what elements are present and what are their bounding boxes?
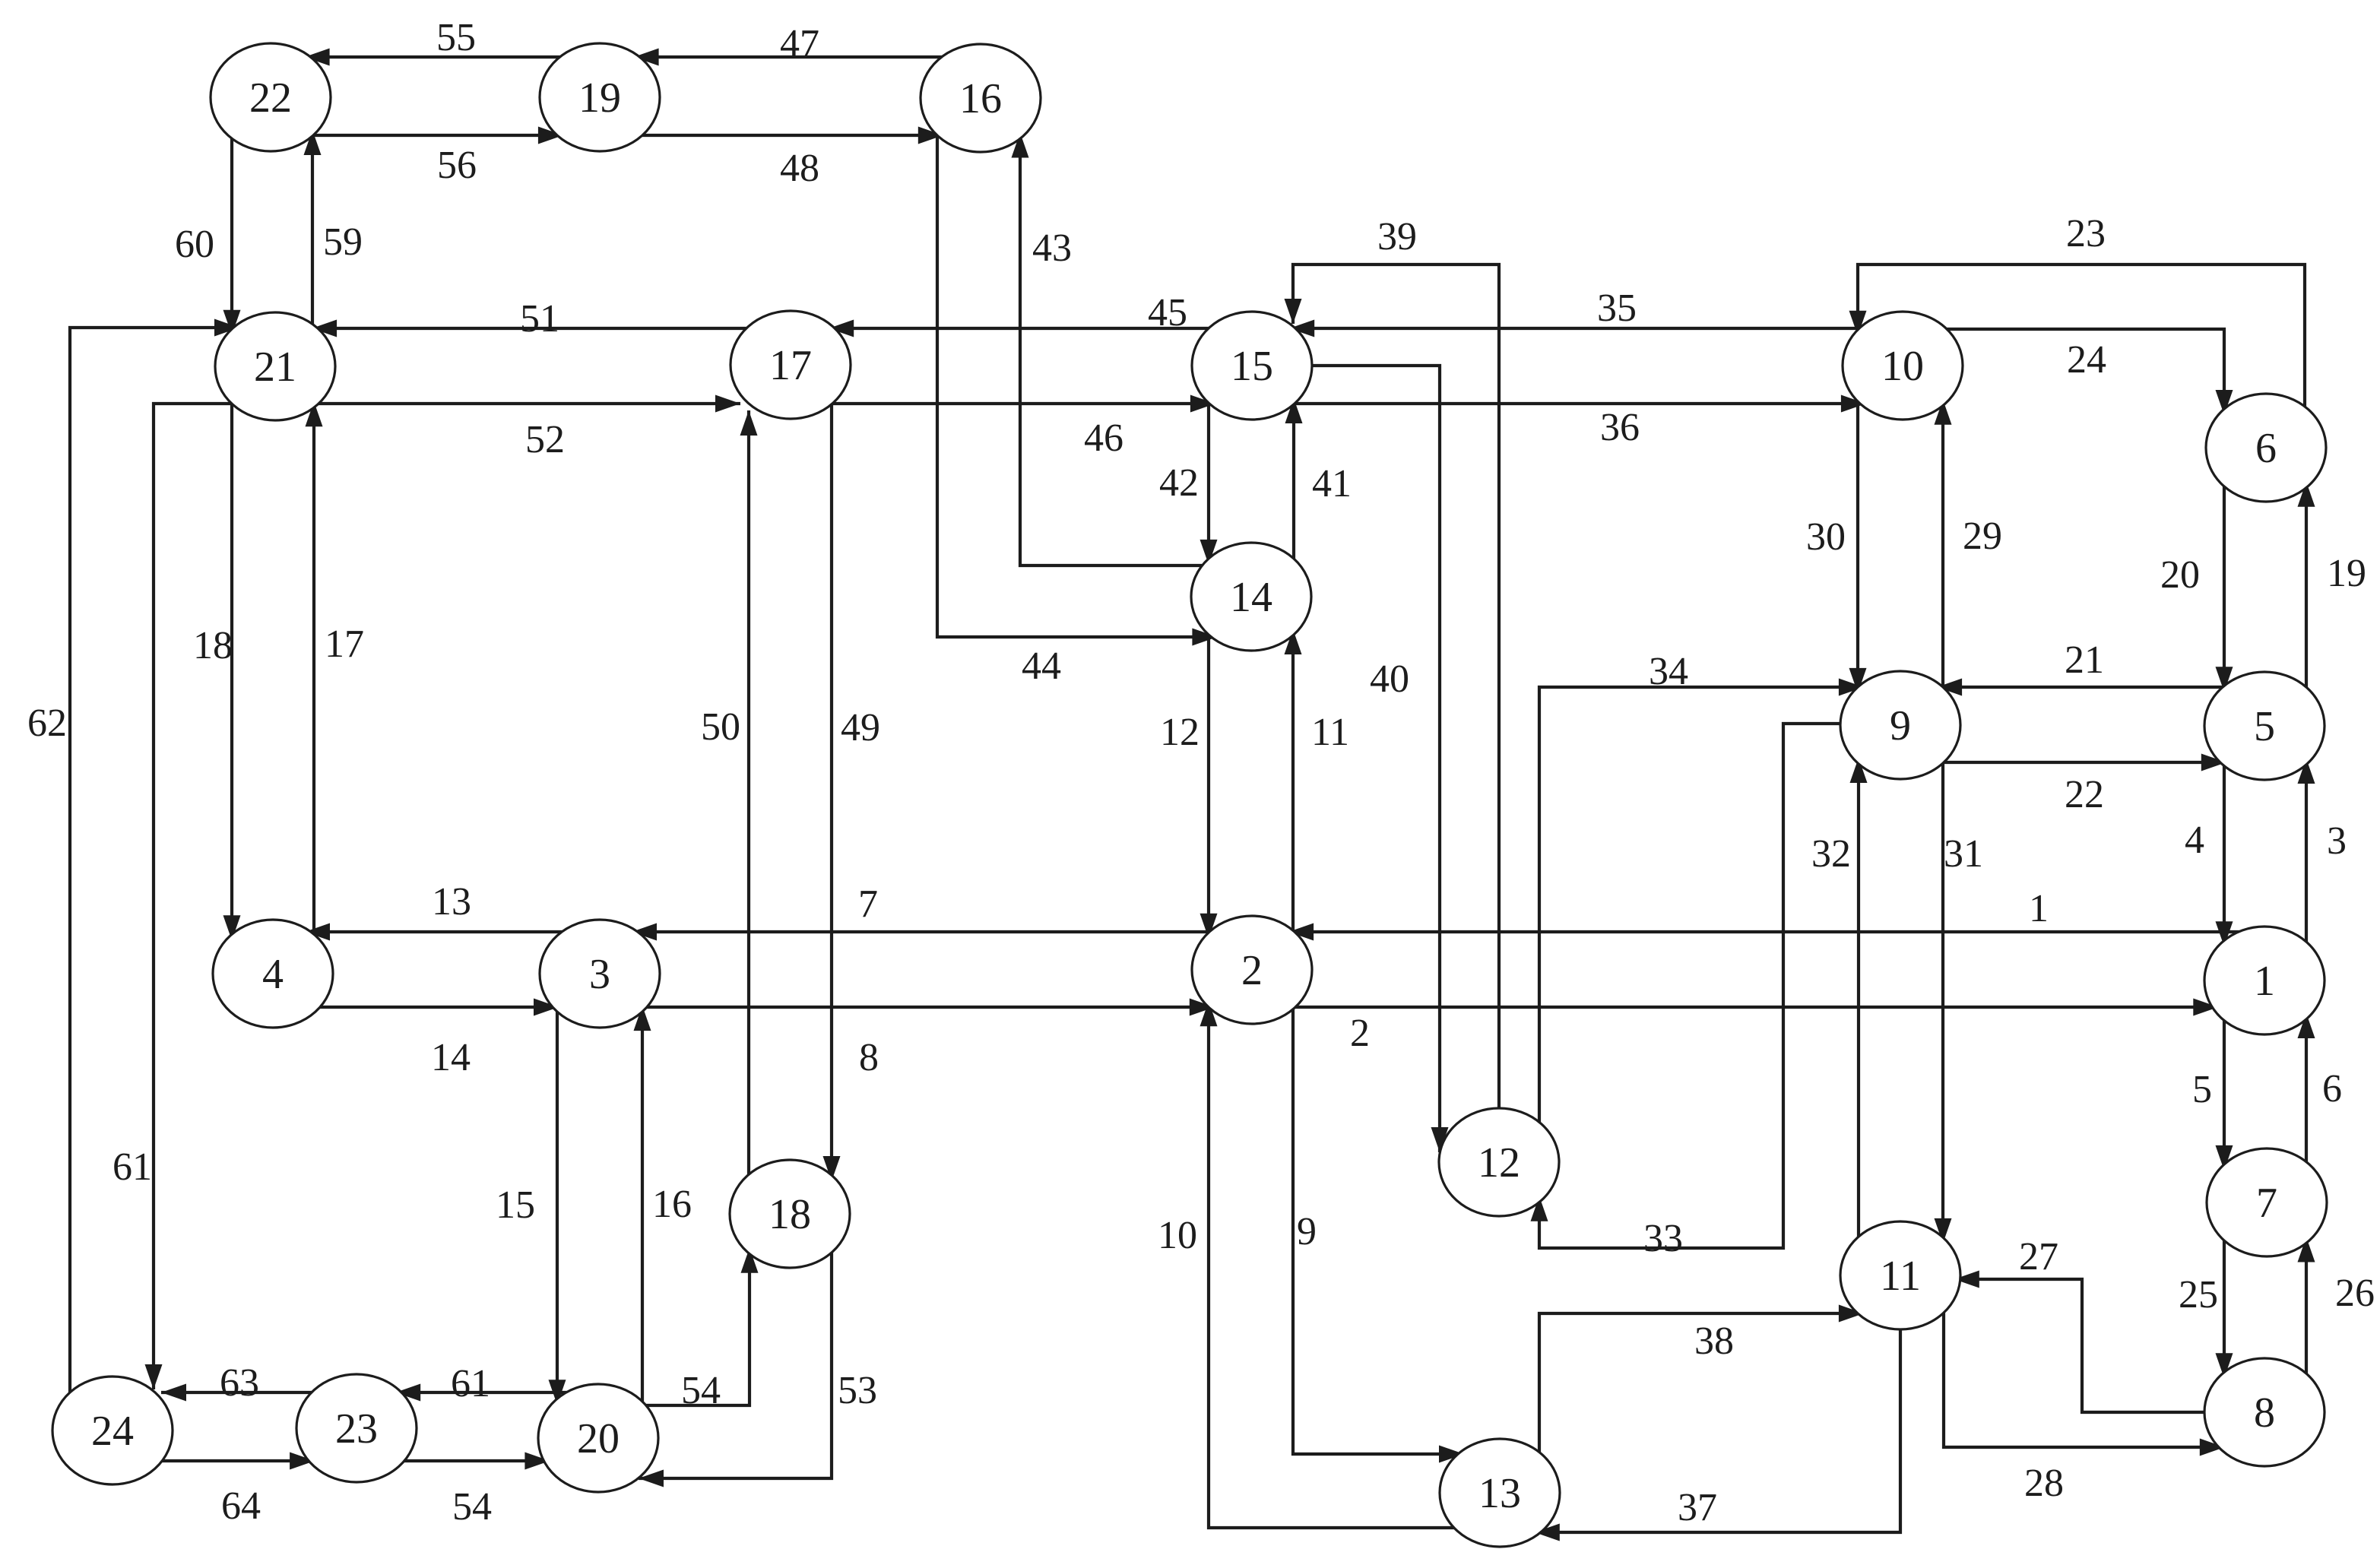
- svg-text:2: 2: [1350, 1012, 1370, 1055]
- svg-text:50: 50: [701, 705, 740, 749]
- edge 10: 13->2: [1200, 1001, 1460, 1528]
- svg-text:46: 46: [1084, 417, 1123, 460]
- edge 13: 3->4: [305, 923, 568, 941]
- edge 11: 2->14: [1285, 629, 1302, 936]
- svg-text:24: 24: [2067, 338, 2106, 382]
- edge 25: 7->8: [2216, 1234, 2233, 1378]
- svg-text:5: 5: [2192, 1068, 2212, 1111]
- edge 23: 6->10: [1849, 265, 2306, 413]
- svg-text:4: 4: [2185, 819, 2204, 862]
- svg-text:56: 56: [437, 144, 477, 187]
- svg-text:34: 34: [1649, 650, 1688, 693]
- svg-text:3: 3: [2327, 819, 2347, 863]
- edge 39: 12->15: [1285, 265, 1500, 1114]
- svg-text:64: 64: [221, 1484, 261, 1528]
- svg-text:17: 17: [325, 623, 364, 666]
- edge 28: 11->8: [1944, 1307, 2225, 1456]
- edge 35: 10->15: [1289, 320, 1865, 337]
- edge 46: 17->15: [826, 395, 1215, 413]
- svg-text:7: 7: [2256, 1180, 2277, 1227]
- svg-text:41: 41: [1312, 462, 1352, 505]
- svg-text:10: 10: [1158, 1214, 1197, 1257]
- edge 15: 3->20: [549, 1006, 566, 1405]
- svg-text:30: 30: [1806, 515, 1846, 559]
- edge 5: 1->7: [2216, 1015, 2233, 1171]
- node 17: [730, 311, 851, 419]
- svg-text:42: 42: [1159, 461, 1199, 505]
- svg-text:44: 44: [1022, 645, 1061, 688]
- svg-text:14: 14: [1230, 574, 1272, 621]
- edge 1: 1->2: [1288, 923, 2245, 941]
- edge 19: 5->6: [2298, 482, 2315, 693]
- svg-text:11: 11: [1311, 711, 1349, 754]
- node 2: [1192, 916, 1312, 1024]
- svg-text:54: 54: [681, 1369, 721, 1412]
- edge 12: 14->2: [1200, 629, 1218, 939]
- node 8: [2204, 1358, 2325, 1466]
- svg-text:36: 36: [1600, 406, 1640, 449]
- svg-text:23: 23: [2066, 212, 2106, 255]
- edge 55: 19->22: [305, 49, 566, 66]
- node 22: [211, 43, 331, 151]
- svg-text:29: 29: [1963, 515, 2002, 558]
- node 16: [921, 44, 1041, 152]
- edge 40: 15->12: [1306, 366, 1449, 1152]
- svg-text:55: 55: [436, 16, 476, 59]
- edge 48: 19->16: [636, 127, 943, 144]
- svg-text:2: 2: [1241, 947, 1263, 994]
- edge 38: 13->11: [1539, 1305, 1864, 1459]
- svg-text:15: 15: [1231, 343, 1273, 390]
- svg-text:17: 17: [769, 342, 812, 389]
- svg-text:39: 39: [1377, 215, 1417, 258]
- edge 21: 5->9: [1937, 679, 2229, 696]
- svg-text:1: 1: [2254, 958, 2275, 1005]
- edge 3: 1->5: [2298, 759, 2315, 948]
- svg-text:8: 8: [859, 1036, 879, 1079]
- svg-text:20: 20: [577, 1415, 620, 1462]
- edge 4: 5->1: [2216, 760, 2233, 947]
- edge 43: 14->16: [1012, 133, 1209, 566]
- node 21: [215, 312, 335, 420]
- svg-text:9: 9: [1890, 702, 1911, 749]
- edge 60: 22->21: [223, 132, 241, 335]
- edge 26: 8->7: [2298, 1237, 2315, 1380]
- edge 22: 9->5: [1938, 754, 2226, 771]
- svg-text:9: 9: [1297, 1210, 1317, 1253]
- svg-text:37: 37: [1678, 1486, 1717, 1529]
- node 23: [296, 1374, 417, 1482]
- svg-text:32: 32: [1811, 832, 1851, 876]
- edge 52: 21->17: [312, 395, 740, 413]
- svg-text:20: 20: [2160, 553, 2200, 597]
- edge 41: 14->15: [1285, 398, 1303, 565]
- svg-text:6: 6: [2255, 425, 2277, 472]
- edge 27: 8->11: [1954, 1271, 2210, 1413]
- edge 7: 2->3: [632, 923, 1215, 941]
- edge 53: 18->20: [639, 1247, 832, 1487]
- svg-text:33: 33: [1643, 1217, 1683, 1260]
- node 24: [52, 1377, 173, 1484]
- edge 50: 18->17: [740, 410, 758, 1180]
- svg-text:23: 23: [335, 1405, 378, 1453]
- node 9: [1840, 671, 1960, 779]
- svg-text:19: 19: [2327, 552, 2366, 595]
- svg-text:7: 7: [858, 882, 878, 926]
- svg-text:10: 10: [1881, 343, 1924, 390]
- node 20: [538, 1384, 658, 1492]
- edge 31: 9->11: [1935, 757, 1952, 1243]
- svg-text:13: 13: [432, 880, 471, 923]
- svg-text:22: 22: [2065, 773, 2104, 816]
- svg-text:12: 12: [1478, 1139, 1520, 1186]
- node 6: [2206, 394, 2326, 502]
- node 19: [540, 43, 660, 151]
- svg-text:43: 43: [1032, 227, 1072, 270]
- edge 54: 23->20: [398, 1453, 550, 1470]
- svg-text:3: 3: [589, 951, 610, 998]
- svg-text:53: 53: [838, 1369, 877, 1412]
- svg-text:24: 24: [91, 1408, 134, 1455]
- edge 37: 11->13: [1535, 1323, 1900, 1541]
- svg-text:4: 4: [262, 951, 284, 998]
- node 15: [1192, 312, 1312, 420]
- edge 18: 21->4: [223, 398, 241, 940]
- edge 62: 24->21: [70, 319, 239, 1399]
- svg-text:54: 54: [452, 1485, 492, 1529]
- edge 64: 24->23: [156, 1453, 315, 1470]
- edge 32: 11->9: [1850, 758, 1868, 1243]
- svg-text:51: 51: [520, 297, 559, 341]
- svg-text:21: 21: [2065, 638, 2104, 682]
- node 10: [1843, 312, 1963, 420]
- edge 36: 15->10: [1288, 395, 1866, 413]
- svg-text:63: 63: [220, 1361, 259, 1405]
- node 4: [213, 920, 333, 1028]
- edge 16: 20->3: [634, 1006, 651, 1408]
- svg-text:28: 28: [2024, 1462, 2064, 1505]
- svg-text:15: 15: [496, 1183, 535, 1227]
- svg-text:21: 21: [254, 344, 296, 391]
- edge 45: 15->17: [829, 320, 1215, 337]
- edge 61 (second): 20->23: [395, 1384, 572, 1402]
- edge 61: 21->24: [145, 404, 238, 1389]
- svg-text:61: 61: [113, 1145, 152, 1189]
- edge 6: 7->1: [2298, 1013, 2315, 1168]
- svg-text:35: 35: [1597, 287, 1637, 330]
- edge 29: 9->10: [1935, 400, 1952, 693]
- svg-text:52: 52: [525, 418, 565, 461]
- svg-text:16: 16: [959, 75, 1002, 122]
- edge 54 (second): 20->18: [640, 1248, 759, 1405]
- edge 56: 22->19: [307, 127, 563, 144]
- node 5: [2204, 672, 2325, 780]
- node 1: [2204, 927, 2325, 1034]
- svg-text:48: 48: [780, 147, 819, 190]
- svg-text:16: 16: [652, 1183, 692, 1226]
- svg-text:40: 40: [1370, 657, 1409, 701]
- svg-text:6: 6: [2322, 1067, 2342, 1110]
- svg-text:13: 13: [1478, 1470, 1521, 1517]
- edge 34: 12->9: [1539, 679, 1864, 1129]
- svg-text:25: 25: [2179, 1273, 2218, 1316]
- svg-text:62: 62: [27, 702, 67, 745]
- node 12: [1439, 1108, 1559, 1216]
- node 18: [730, 1160, 850, 1268]
- svg-text:47: 47: [780, 22, 819, 65]
- svg-text:18: 18: [193, 624, 233, 667]
- node 11: [1840, 1221, 1960, 1329]
- node 7: [2207, 1148, 2327, 1256]
- edge 49: 17->18: [823, 398, 841, 1181]
- svg-text:61: 61: [451, 1362, 490, 1405]
- edge 2: 2->1: [1289, 999, 2218, 1016]
- svg-text:59: 59: [323, 220, 363, 264]
- edge 30: 10->9: [1849, 395, 1867, 693]
- edge 42: 15->14: [1200, 397, 1218, 565]
- svg-text:27: 27: [2019, 1235, 2058, 1278]
- svg-text:14: 14: [431, 1036, 471, 1079]
- svg-text:26: 26: [2335, 1272, 2375, 1315]
- svg-text:49: 49: [841, 706, 880, 749]
- svg-text:8: 8: [2254, 1389, 2275, 1437]
- edge 9: 2->13: [1293, 1003, 1464, 1463]
- edge 44: 16->14: [937, 129, 1217, 645]
- svg-text:60: 60: [175, 223, 214, 266]
- edge 59: 21->22: [304, 130, 322, 330]
- edge 8: 3->2: [641, 999, 1215, 1016]
- svg-text:45: 45: [1148, 291, 1187, 334]
- edge 63: 23->24: [161, 1384, 318, 1402]
- edge 33: 9->12: [1531, 724, 1847, 1248]
- svg-text:11: 11: [1880, 1253, 1921, 1300]
- node 13: [1440, 1439, 1560, 1547]
- edge 20: 6->5: [2216, 480, 2233, 692]
- node 3: [540, 920, 660, 1028]
- svg-text:19: 19: [578, 74, 621, 122]
- svg-text:22: 22: [249, 74, 292, 122]
- edge 14: 4->3: [314, 999, 559, 1016]
- svg-text:18: 18: [769, 1191, 811, 1238]
- svg-text:12: 12: [1160, 711, 1200, 754]
- edge 17: 4->21: [306, 401, 323, 940]
- svg-text:1: 1: [2029, 887, 2049, 930]
- edge 24: 10->6: [1941, 329, 2233, 415]
- node 14: [1191, 543, 1311, 651]
- edge 47: 16->19: [634, 49, 948, 66]
- svg-text:31: 31: [1944, 832, 1983, 876]
- svg-text:38: 38: [1694, 1319, 1734, 1363]
- svg-text:5: 5: [2254, 703, 2275, 750]
- edge 51: 17->21: [312, 320, 753, 337]
